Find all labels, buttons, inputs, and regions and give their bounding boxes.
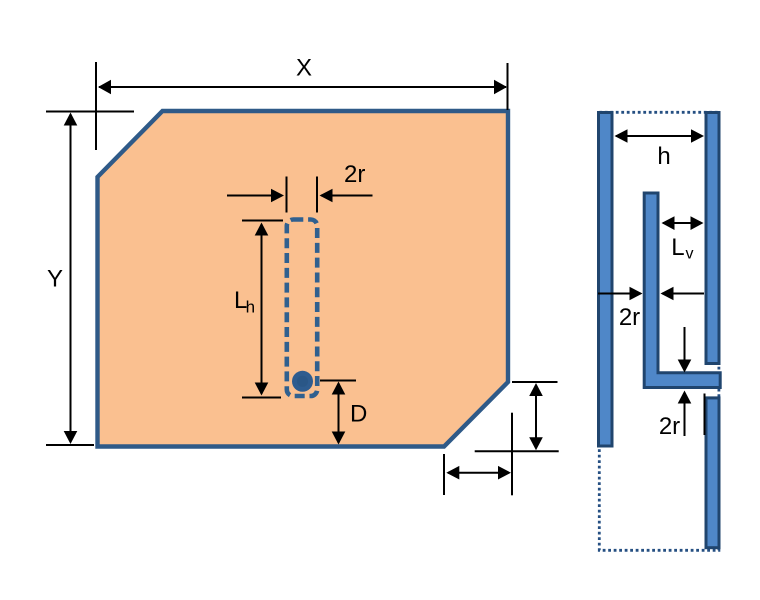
dimension Y (left height) <box>46 113 94 446</box>
dimension Lh (slot length) <box>234 221 283 398</box>
svg-text:Y: Y <box>47 266 63 293</box>
dimension 2r bottom (foot thickness) <box>659 327 705 440</box>
svg-text:h: h <box>657 143 670 170</box>
dimension corner-vertical (chamfer height, bottom right) <box>475 382 559 451</box>
feed via (probe feed point) <box>292 371 313 392</box>
svg-text:2r: 2r <box>659 413 680 440</box>
svg-text:h: h <box>246 298 255 317</box>
svg-text:2r: 2r <box>344 161 365 188</box>
dimension 2r right (centre bar thickness) <box>598 287 704 331</box>
dimension Lv (gap centre bar to right wall) <box>662 216 704 262</box>
svg-text:v: v <box>686 246 694 263</box>
wall right top (right vertical bar, upper) <box>706 113 719 364</box>
svg-text:X: X <box>296 55 312 82</box>
dimension D (feed offset from bottom edge) <box>320 381 367 445</box>
dimension X (top width) <box>46 55 508 151</box>
slot (dashed slot outline) <box>287 220 317 397</box>
dimension corner-horizontal (chamfer width, bottom right) <box>444 413 512 496</box>
wall middle L (centre bar with horizontal foot) <box>644 193 720 388</box>
dimension 2r (slot width, on patch) <box>227 161 373 213</box>
wall left (left vertical bar) <box>599 113 613 447</box>
patch (chamfered radiating patch) <box>98 111 509 447</box>
svg-text:D: D <box>350 401 367 428</box>
svg-text:L: L <box>671 234 684 261</box>
svg-text:2r: 2r <box>619 304 640 331</box>
dotted cavity outline (right figure) <box>599 112 719 550</box>
wall right bottom (right vertical bar, lower) <box>706 398 719 548</box>
dimension h (gap between outer walls) <box>615 129 705 170</box>
